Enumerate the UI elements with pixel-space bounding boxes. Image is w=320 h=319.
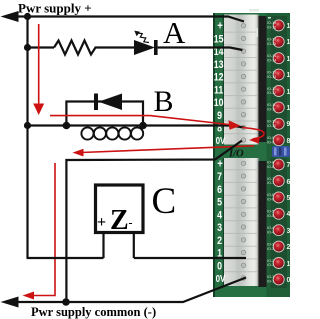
svg-text:IO-6: IO-6 (267, 193, 274, 197)
svg-text:IO-7: IO-7 (267, 181, 274, 185)
svg-text:10: 10 (214, 97, 224, 109)
node labels bottom block (216, 157, 226, 284)
svg-text:Z: Z (110, 205, 129, 236)
svg-text:I/O: I/O (228, 149, 244, 160)
svg-text:IO-7: IO-7 (267, 177, 274, 181)
svg-text:15: 15 (287, 23, 291, 30)
svg-text:IO-10: IO-10 (267, 120, 276, 124)
wire: Pwr supply + rail (top) (5, 17, 244, 22)
wire: 0V return (top block) (66, 141, 242, 303)
red wire: return path vertical (33, 163, 55, 296)
svg-text:IO-5: IO-5 (267, 210, 274, 214)
svg-text:12: 12 (214, 72, 224, 84)
svg-text:Pwr supply common (-): Pwr supply common (-) (31, 305, 156, 319)
svg-text:15: 15 (214, 34, 224, 46)
svg-text:IO-6: IO-6 (267, 198, 274, 202)
svg-text:4: 4 (217, 209, 222, 221)
svg-text:5: 5 (287, 195, 291, 202)
node + (top block terminal labels) (214, 20, 226, 147)
svg-text:2: 2 (287, 244, 291, 251)
svg-text:7: 7 (287, 162, 291, 169)
svg-text:IO-10: IO-10 (267, 124, 276, 128)
svg-text:+: + (217, 157, 223, 170)
svg-text:2: 2 (217, 235, 222, 247)
terminal row ridges and screws bottom block (224, 161, 258, 280)
node: junction top (24, 13, 31, 20)
svg-text:IO-3: IO-3 (267, 247, 274, 251)
svg-text:IO-5: IO-5 (267, 214, 274, 218)
svg-text:7: 7 (217, 171, 222, 183)
svg-text:0V: 0V (216, 135, 226, 146)
svg-text:9: 9 (217, 110, 222, 122)
svg-text:5: 5 (217, 197, 222, 209)
wire: C left leg (102, 233, 104, 258)
svg-text:IO-15: IO-15 (267, 42, 276, 46)
svg-text:C: C (152, 181, 177, 222)
wire: branch B line (28, 126, 245, 128)
svg-text:11: 11 (214, 85, 224, 97)
svg-text:IO-12: IO-12 (267, 91, 276, 95)
svg-text:8: 8 (287, 138, 291, 145)
inductor L (relay coil B) (81, 127, 143, 139)
node: junction branch B (24, 122, 31, 129)
svg-text:IO-16: IO-16 (267, 26, 276, 30)
LED A diode triangle (134, 40, 155, 55)
svg-text:9: 9 (287, 121, 291, 128)
svg-text:IO-1: IO-1 (267, 275, 274, 279)
svg-text:IO-9: IO-9 (267, 140, 274, 144)
svg-text:IO-14: IO-14 (267, 54, 276, 58)
svg-text:IO-8: IO-8 (267, 160, 274, 164)
I/O board PCB photo background (213, 13, 290, 297)
svg-text:6: 6 (217, 184, 222, 196)
svg-text:IO-3: IO-3 (267, 242, 274, 246)
LED indicators column (IO-8..IO-1) (273, 159, 284, 285)
node: junction common (62, 298, 70, 306)
right edge clipped digits (287, 23, 295, 284)
svg-text:0: 0 (217, 260, 222, 272)
svg-text:IO-2: IO-2 (267, 263, 274, 267)
LED column shadow strip (271, 16, 288, 144)
svg-text:11: 11 (287, 89, 291, 96)
svg-text:IO-15: IO-15 (267, 38, 276, 42)
wire: branch A lead (28, 46, 55, 48)
red wire: return from 0V (81, 146, 254, 153)
svg-text:+: + (97, 214, 106, 231)
svg-text:10: 10 (287, 105, 291, 112)
LED A cathode bar (154, 40, 158, 55)
connector shadow edges (223, 15, 224, 145)
svg-text:13: 13 (214, 59, 224, 71)
svg-text:IO-16: IO-16 (267, 21, 276, 25)
svg-text:3: 3 (287, 228, 291, 235)
flyback diode D1 cathode bar (94, 94, 98, 111)
node: diode box left (63, 122, 71, 130)
svg-text:14: 14 (287, 39, 291, 46)
svg-text:IO-1: IO-1 (267, 280, 274, 284)
terminal row ridges and screws top block (224, 24, 258, 143)
wire: + bus to C left leg (27, 257, 104, 259)
red arrow: current flow down from + (38, 24, 40, 104)
bottom block pin header (dark bar) (259, 161, 267, 287)
svg-text:B: B (154, 85, 174, 118)
motor C box (96, 185, 144, 233)
svg-text:12: 12 (287, 72, 291, 79)
bottom terminal block connector (white) (224, 158, 259, 286)
LED A emission squiggle arrow (138, 33, 149, 43)
svg-text:IO-13: IO-13 (267, 70, 276, 74)
svg-text:1: 1 (287, 261, 291, 268)
svg-text:IO-2: IO-2 (267, 259, 274, 263)
flyback diode D1 triangle (99, 94, 123, 111)
svg-text:6: 6 (287, 179, 291, 186)
svg-text:IO-11: IO-11 (267, 103, 276, 107)
top block pin header (dark bar) (259, 16, 267, 142)
silkscreen specks (249, 9, 271, 37)
svg-text:A: A (163, 15, 186, 50)
blue capacitor component (272, 146, 290, 157)
svg-text:0V: 0V (216, 273, 226, 284)
arrow: power supply common lead (left) (1, 297, 19, 308)
svg-text:IO-9: IO-9 (267, 136, 274, 140)
LED silkscreen micro-labels (267, 21, 276, 283)
wire: + vertical bus (26, 17, 28, 259)
flyback diode box wires (66, 102, 143, 126)
svg-text:IO-13: IO-13 (267, 75, 276, 79)
svg-text:IO-11: IO-11 (267, 108, 276, 112)
wire: Pwr supply common rail (5, 278, 246, 303)
node: diode box right (139, 122, 147, 130)
node: junction branch A (24, 44, 31, 51)
wire: C right leg to terminal 0 (134, 257, 246, 259)
svg-text:IO-12: IO-12 (267, 87, 276, 91)
svg-text:13: 13 (287, 56, 291, 63)
svg-text:4: 4 (287, 211, 291, 218)
red loop through module (242, 128, 264, 140)
svg-text:3: 3 (217, 222, 222, 234)
svg-text:0: 0 (287, 277, 291, 284)
top terminal block connector (white) (224, 15, 259, 145)
svg-text:IO-14: IO-14 (267, 58, 276, 62)
svg-text:+: + (217, 20, 223, 33)
svg-text:IO-4: IO-4 (267, 230, 274, 234)
LED indicators column (IO-16..IO-9) (273, 20, 284, 146)
red wire: current into terminal 8 (50, 116, 229, 125)
svg-text:IO-4: IO-4 (267, 226, 274, 230)
wire: C right leg (133, 233, 135, 258)
wire: R to LED A (99, 46, 134, 48)
arrow: power supply + lead (left) (1, 11, 19, 22)
wire: LED A to terminal 14 (158, 48, 243, 51)
svg-text:-: - (129, 216, 133, 230)
resistor R (branch A) (54, 41, 99, 55)
svg-text:IO-8: IO-8 (267, 165, 274, 169)
